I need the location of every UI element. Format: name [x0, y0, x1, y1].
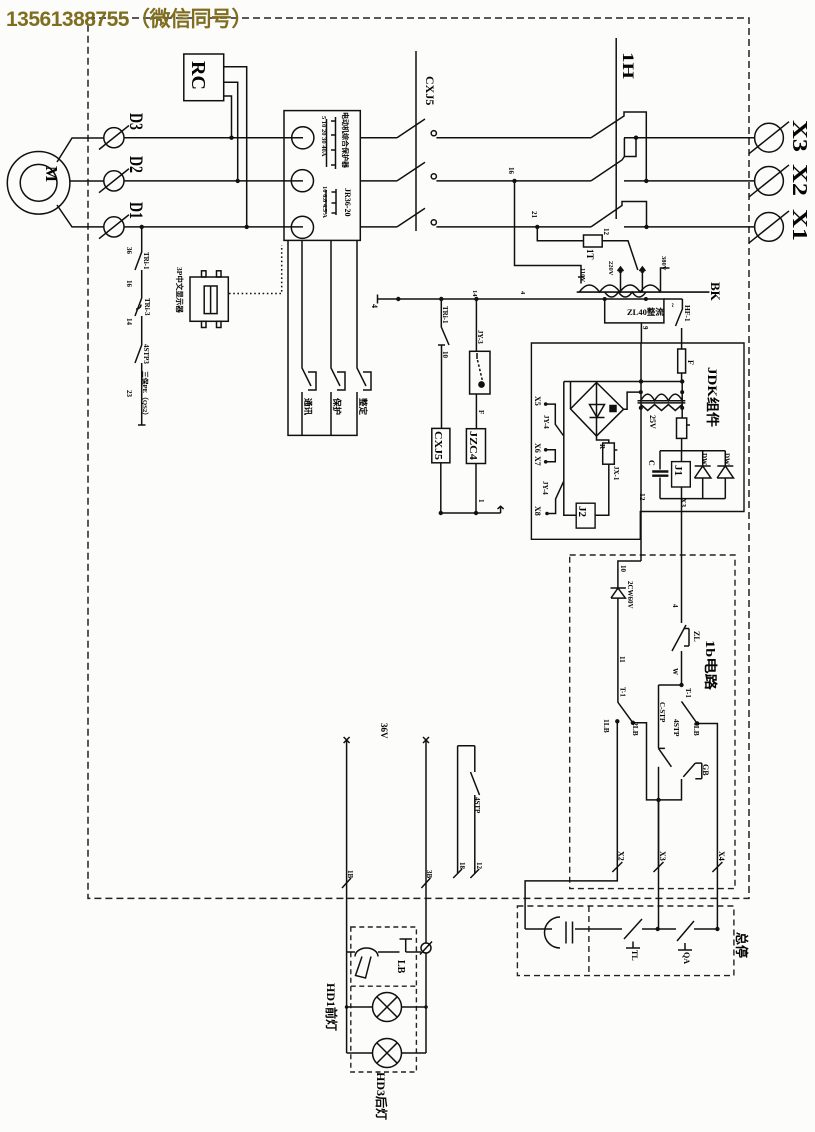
svg-text:JZC4: JZC4 — [467, 431, 478, 460]
svg-text:F: F — [686, 360, 695, 365]
svg-text:JR36-20: JR36-20 — [343, 188, 352, 216]
svg-text:JY-3: JY-3 — [476, 330, 484, 344]
svg-text:2LB: 2LB — [631, 722, 640, 736]
svg-text:GB: GB — [701, 764, 710, 776]
svg-text:1B: 1B — [346, 870, 354, 879]
svg-text:X6: X6 — [533, 443, 542, 453]
svg-text:X2: X2 — [617, 851, 626, 861]
svg-text:12: 12 — [602, 228, 610, 236]
svg-text:CXJ5: CXJ5 — [432, 431, 443, 460]
svg-text:T-1: T-1 — [619, 687, 627, 697]
svg-text:电动机综合保护器: 电动机综合保护器 — [341, 112, 350, 169]
svg-text:1H: 1H — [619, 52, 636, 80]
svg-text:10: 10 — [619, 565, 627, 573]
svg-text:X3: X3 — [679, 498, 688, 507]
svg-text:4STP3: 4STP3 — [142, 344, 150, 364]
svg-text:16: 16 — [125, 280, 133, 288]
svg-text:C: C — [647, 460, 656, 466]
svg-text:10 6.8 4.5 A: 10 6.8 4.5 A — [321, 186, 328, 218]
svg-text:X2: X2 — [788, 164, 812, 196]
svg-text:C-STP: C-STP — [658, 702, 666, 723]
svg-text:380V: 380V — [660, 256, 667, 271]
svg-text:通讯: 通讯 — [303, 398, 313, 416]
svg-text:X1: X1 — [788, 209, 812, 241]
svg-text:2CW60V: 2CW60V — [626, 581, 634, 609]
svg-text:110V: 110V — [579, 268, 586, 282]
svg-text:X8: X8 — [533, 506, 542, 516]
svg-text:TRi-1: TRi-1 — [142, 252, 150, 270]
svg-text:X7: X7 — [533, 456, 542, 466]
svg-text:整定: 整定 — [358, 398, 368, 416]
svg-text:11: 11 — [618, 656, 626, 663]
svg-text:1T: 1T — [585, 249, 595, 260]
svg-text:三保PE（QS2）: 三保PE（QS2） — [141, 371, 150, 419]
svg-text:4: 4 — [370, 304, 379, 308]
svg-text:ZL40整流: ZL40整流 — [627, 307, 664, 317]
svg-text:36: 36 — [125, 247, 133, 255]
svg-text:RC: RC — [187, 61, 209, 90]
svg-text:X3: X3 — [788, 120, 812, 152]
svg-text:6LB: 6LB — [692, 722, 701, 736]
svg-text:220V: 220V — [607, 261, 614, 276]
svg-text:J2: J2 — [576, 506, 588, 518]
svg-text:T-1: T-1 — [684, 688, 692, 698]
svg-text:CXJ5: CXJ5 — [423, 76, 437, 105]
svg-text:10: 10 — [441, 351, 449, 359]
svg-text:~: ~ — [668, 303, 677, 308]
svg-text:LB: LB — [395, 960, 406, 974]
svg-text:JY-4: JY-4 — [542, 415, 550, 429]
svg-text:3B: 3B — [425, 870, 433, 879]
svg-text:QA: QA — [682, 952, 691, 964]
svg-text:9: 9 — [641, 326, 649, 330]
svg-text:BK: BK — [708, 282, 723, 302]
svg-text:DW: DW — [723, 453, 731, 465]
svg-text:总停: 总停 — [734, 932, 749, 958]
svg-text:4STP: 4STP — [473, 797, 481, 814]
svg-text:1LB: 1LB — [602, 719, 611, 733]
svg-text:1b电路: 1b电路 — [703, 640, 718, 691]
svg-text:3P中文显示器: 3P中文显示器 — [175, 267, 185, 313]
svg-text:4: 4 — [671, 604, 679, 608]
svg-text:12: 12 — [638, 493, 647, 501]
svg-text:M: M — [42, 166, 61, 182]
svg-text:HD1前灯: HD1前灯 — [324, 983, 339, 1031]
svg-text:D3: D3 — [125, 113, 146, 130]
svg-text:18: 18 — [458, 862, 466, 870]
svg-text:HD3后灯: HD3后灯 — [374, 1072, 389, 1120]
svg-text:J1: J1 — [672, 465, 684, 476]
svg-text:14: 14 — [125, 318, 133, 326]
svg-text:5 10 20 30 40A: 5 10 20 30 40A — [320, 116, 327, 157]
svg-text:14: 14 — [471, 290, 478, 297]
svg-text:F: F — [477, 410, 485, 414]
svg-text:ZL: ZL — [692, 631, 701, 642]
svg-text:12: 12 — [475, 862, 483, 870]
svg-text:DW: DW — [700, 453, 708, 465]
svg-text:21: 21 — [530, 211, 538, 219]
svg-text:1: 1 — [477, 499, 485, 503]
svg-text:JDK组件: JDK组件 — [705, 367, 720, 427]
svg-text:JY-4: JY-4 — [541, 481, 549, 495]
svg-text:保护: 保护 — [332, 397, 342, 416]
svg-text:TRi-3: TRi-3 — [143, 298, 151, 316]
svg-text:JX-1: JX-1 — [612, 466, 620, 481]
svg-text:D2: D2 — [125, 156, 146, 173]
svg-text:25V: 25V — [648, 415, 657, 429]
svg-text:4: 4 — [519, 291, 526, 295]
svg-text:TRi-1: TRi-1 — [441, 306, 449, 324]
svg-text:D1: D1 — [125, 202, 146, 219]
svg-text:36V: 36V — [379, 723, 389, 739]
svg-text:X4: X4 — [717, 851, 726, 861]
svg-text:X3: X3 — [658, 851, 667, 861]
svg-text:HF-1: HF-1 — [683, 305, 692, 322]
svg-text:TL: TL — [630, 950, 639, 961]
svg-text:4STP: 4STP — [672, 719, 681, 737]
svg-text:X5: X5 — [533, 396, 542, 406]
svg-text:23: 23 — [125, 390, 133, 398]
svg-text:16: 16 — [507, 167, 515, 175]
svg-text:W: W — [671, 668, 679, 675]
